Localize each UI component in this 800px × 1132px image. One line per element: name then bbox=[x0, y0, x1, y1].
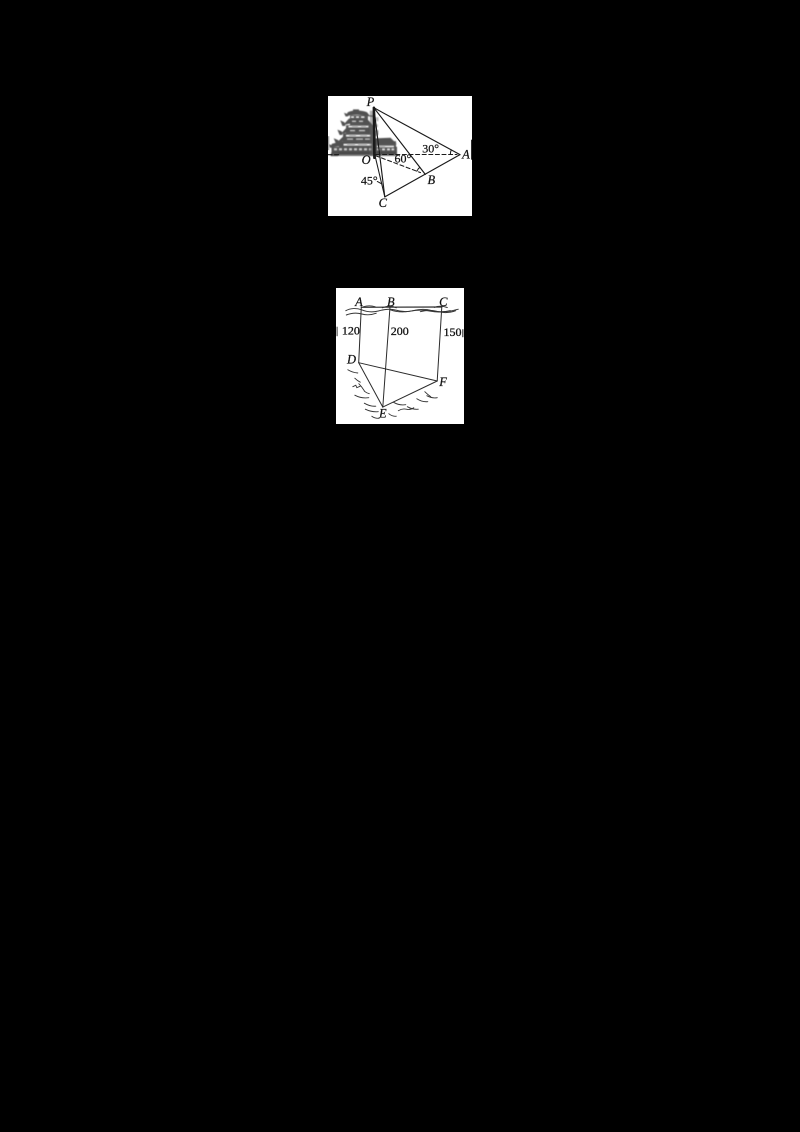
svg-text:30°: 30° bbox=[422, 141, 439, 155]
svg-text:O: O bbox=[362, 153, 371, 167]
svg-text:E: E bbox=[378, 406, 387, 420]
svg-text:200: 200 bbox=[390, 324, 408, 338]
svg-text:A: A bbox=[461, 147, 470, 161]
svg-text:A: A bbox=[354, 295, 363, 309]
svg-text:D: D bbox=[346, 352, 356, 366]
svg-text:B: B bbox=[427, 173, 435, 187]
svg-text:120: 120 bbox=[342, 323, 360, 337]
svg-text:60°: 60° bbox=[395, 151, 412, 165]
svg-text:P: P bbox=[366, 96, 375, 109]
svg-text:C: C bbox=[439, 295, 448, 309]
svg-text:150: 150 bbox=[443, 325, 461, 339]
svg-text:B: B bbox=[387, 295, 395, 309]
svg-text:45°: 45° bbox=[361, 173, 378, 187]
svg-text:F: F bbox=[438, 375, 447, 389]
svg-text:C: C bbox=[379, 196, 388, 210]
